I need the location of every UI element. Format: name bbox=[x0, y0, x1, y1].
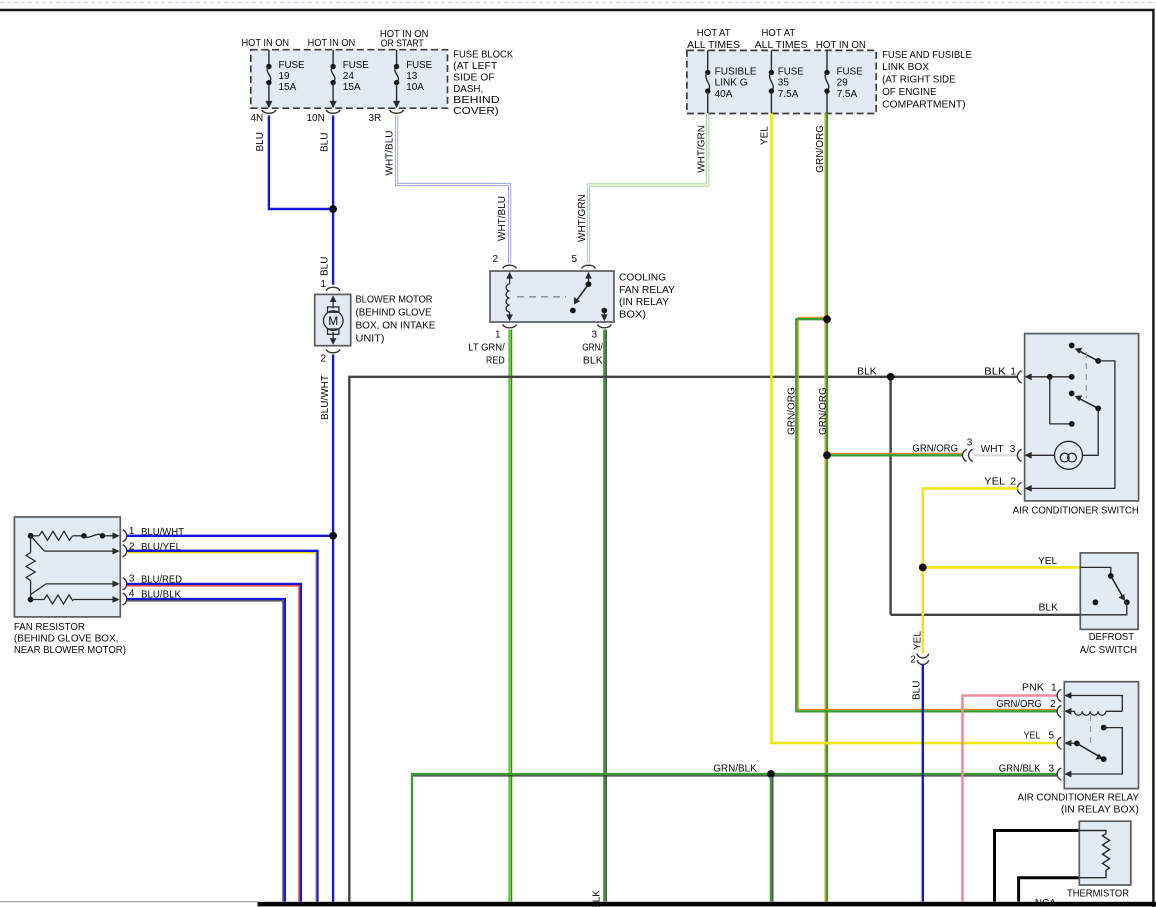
svg-text:7.5A: 7.5A bbox=[837, 89, 858, 100]
junction of BLU wires bbox=[329, 205, 337, 213]
svg-text:YEL: YEL bbox=[1038, 556, 1058, 567]
svg-text:FAN RELAY: FAN RELAY bbox=[619, 285, 675, 296]
inline connector 3 (GRN/ORG to WHT) bbox=[963, 438, 973, 462]
svg-text:7.5A: 7.5A bbox=[778, 89, 799, 100]
svg-text:15A: 15A bbox=[279, 82, 297, 93]
wire BLK from corner to air conditioner switch pin 1 bbox=[349, 367, 1018, 902]
air conditioner relay (in relay box) bbox=[1018, 682, 1140, 816]
fuse 29 7.5A (HOT IN ON) bbox=[816, 40, 866, 113]
svg-text:UNIT): UNIT) bbox=[356, 334, 385, 345]
svg-text:BLOWER MOTOR: BLOWER MOTOR bbox=[356, 295, 433, 306]
connector pin 5 of cooling fan relay bbox=[572, 254, 596, 269]
svg-text:29: 29 bbox=[837, 78, 849, 89]
svg-text:FUSE: FUSE bbox=[406, 60, 432, 71]
svg-text:5: 5 bbox=[1049, 731, 1055, 742]
svg-text:1: 1 bbox=[321, 279, 327, 290]
svg-text:10N: 10N bbox=[307, 113, 325, 124]
wire GRN/ORG branch to inline connector 3 bbox=[827, 443, 963, 455]
svg-text:WHT: WHT bbox=[981, 444, 1004, 455]
wire WHT/GRN from fusible link G to cooling fan relay pin 5 bbox=[577, 113, 708, 263]
fusible link G 40A (HOT AT ALL TIMES) bbox=[687, 28, 757, 113]
svg-text:THERMISTOR: THERMISTOR bbox=[1067, 889, 1129, 900]
connector pin 2 of cooling fan relay bbox=[493, 254, 517, 269]
svg-text:FUSE: FUSE bbox=[343, 60, 369, 71]
junction BLU/WHT bbox=[329, 532, 337, 540]
svg-text:WHT/GRN: WHT/GRN bbox=[577, 194, 588, 242]
svg-text:FUSE: FUSE bbox=[279, 60, 305, 71]
connector 3R bbox=[369, 110, 404, 124]
svg-text:DASH,: DASH, bbox=[453, 84, 483, 95]
svg-text:COOLING: COOLING bbox=[619, 273, 666, 284]
svg-text:(BEHIND GLOVE BOX,: (BEHIND GLOVE BOX, bbox=[14, 634, 119, 645]
defrost a/c switch bbox=[1039, 553, 1139, 656]
svg-text:A/C SWITCH: A/C SWITCH bbox=[1080, 645, 1137, 656]
svg-text:HOT AT: HOT AT bbox=[697, 28, 731, 39]
svg-text:WHT/BLU: WHT/BLU bbox=[385, 131, 396, 176]
svg-text:AIR CONDITIONER RELAY: AIR CONDITIONER RELAY bbox=[1018, 793, 1140, 804]
svg-text:35: 35 bbox=[778, 78, 790, 89]
wire GRN/ORG from fuse 29 down to bottom bbox=[815, 113, 829, 901]
svg-text:M: M bbox=[328, 314, 338, 328]
svg-text:FUSE: FUSE bbox=[837, 66, 863, 77]
svg-text:2: 2 bbox=[1010, 477, 1016, 488]
svg-text:40A: 40A bbox=[715, 89, 733, 100]
svg-text:3: 3 bbox=[1010, 444, 1016, 455]
svg-text:LINK BOX: LINK BOX bbox=[882, 62, 929, 73]
wire GRN/BLK branch junction to bottom bbox=[771, 777, 773, 902]
wire GRN/BLK from cooling fan relay pin 3 to bottom bbox=[592, 330, 607, 907]
svg-text:GRN/BLK: GRN/BLK bbox=[999, 764, 1041, 775]
connector pin 5 of air conditioner relay (YEL) bbox=[1024, 731, 1062, 749]
svg-text:WHT/BLU: WHT/BLU bbox=[497, 196, 508, 241]
svg-text:3: 3 bbox=[967, 438, 973, 449]
svg-text:ALL TIMES: ALL TIMES bbox=[687, 40, 740, 51]
svg-text:BLU: BLU bbox=[320, 257, 331, 276]
svg-text:10A: 10A bbox=[406, 82, 424, 93]
svg-text:13: 13 bbox=[406, 71, 418, 82]
connector pin 1 of fan resistor bbox=[123, 526, 184, 542]
connector pin 3 of air conditioner relay (GRN/BLK) bbox=[1049, 764, 1062, 781]
wire WHT from inline connector to air conditioner switch pin 3 bbox=[974, 454, 1018, 456]
svg-text:FUSE AND FUSIBLE: FUSE AND FUSIBLE bbox=[882, 50, 972, 61]
svg-text:FUSE: FUSE bbox=[778, 66, 804, 77]
wire GRN/BLK long run to air conditioner relay pin 3 bbox=[412, 764, 1058, 902]
svg-text:LINK G: LINK G bbox=[715, 78, 748, 89]
junction GRN/ORG upper bbox=[823, 315, 831, 323]
connector pin 2 of fan resistor bbox=[123, 541, 182, 557]
wire BLU/WHT fan resistor pin 1 to junction bbox=[127, 535, 330, 537]
svg-text:FUSIBLE: FUSIBLE bbox=[715, 66, 757, 77]
svg-text:PNK: PNK bbox=[1022, 683, 1044, 694]
wire WHT/BLU from fuse 13 to cooling fan relay pin 2 bbox=[385, 116, 510, 264]
wire BLU from inline connector 2 to bottom bbox=[911, 665, 923, 902]
svg-text:FAN RESISTOR: FAN RESISTOR bbox=[14, 622, 85, 633]
connector pin 3 of fan resistor bbox=[123, 574, 182, 590]
svg-text:3: 3 bbox=[592, 330, 598, 341]
blower motor (behind glove box, on intake unit) bbox=[315, 294, 436, 345]
svg-text:(IN RELAY BOX): (IN RELAY BOX) bbox=[1061, 804, 1139, 815]
svg-text:(IN RELAY: (IN RELAY bbox=[619, 297, 669, 308]
junction GRN/ORG lower bbox=[823, 451, 831, 459]
wire BLU from fuse 19 to junction bbox=[255, 116, 330, 210]
svg-text:BEHIND: BEHIND bbox=[453, 95, 500, 106]
svg-text:BLK: BLK bbox=[984, 367, 1006, 378]
fuse block box (at left side of dash) bbox=[251, 49, 514, 117]
connector pin 1 of blower motor bbox=[321, 279, 341, 291]
svg-text:FUSE BLOCK: FUSE BLOCK bbox=[453, 49, 513, 60]
svg-text:BLU/WHT: BLU/WHT bbox=[320, 375, 331, 420]
svg-text:4N: 4N bbox=[251, 113, 264, 124]
svg-text:2: 2 bbox=[493, 254, 499, 265]
svg-text:LT GRN/: LT GRN/ bbox=[468, 343, 505, 354]
svg-text:BLK: BLK bbox=[857, 367, 877, 378]
wire BLU/BLK fan resistor pin 4 to bottom bbox=[127, 599, 285, 902]
svg-text:COMPARTMENT): COMPARTMENT) bbox=[882, 99, 966, 110]
connector pin 3 of cooling fan relay bbox=[582, 325, 611, 367]
connector pin 2 of blower motor bbox=[320, 350, 340, 421]
svg-text:AIR CONDITIONER SWITCH: AIR CONDITIONER SWITCH bbox=[1013, 506, 1139, 517]
wire LT GRN/RED from cooling fan relay pin 1 to bottom bbox=[510, 330, 512, 902]
inline connector 2 (YEL to BLU) bbox=[910, 654, 929, 666]
svg-text:YEL: YEL bbox=[912, 631, 923, 650]
connector 10N bbox=[307, 110, 341, 124]
svg-text:GRN/ORG: GRN/ORG bbox=[912, 443, 958, 454]
svg-text:BLU: BLU bbox=[911, 681, 922, 700]
svg-text:BOX, ON INTAKE: BOX, ON INTAKE bbox=[356, 321, 436, 332]
wire BLK thermistor return (NCA) bbox=[1019, 878, 1080, 907]
wire YEL junction down to inline connector 2 bbox=[912, 570, 923, 654]
svg-text:3: 3 bbox=[1049, 764, 1055, 775]
fuse 13 10A (HOT IN ON OR START) bbox=[380, 29, 433, 108]
wire PNK from air conditioner relay pin 1 to bottom bbox=[963, 683, 1058, 902]
svg-text:(AT RIGHT SIDE: (AT RIGHT SIDE bbox=[882, 74, 956, 85]
wire YEL from fuse 35 to air conditioner relay pin 5 bbox=[760, 113, 1058, 743]
svg-text:15A: 15A bbox=[343, 82, 361, 93]
junction GRN/BLK bbox=[767, 770, 775, 778]
wire BLK thermistor feed left bbox=[995, 831, 1080, 902]
wire YEL from air conditioner switch pin 2 to junction bbox=[923, 488, 1018, 564]
svg-text:24: 24 bbox=[343, 71, 355, 82]
svg-text:OR START: OR START bbox=[381, 38, 424, 49]
svg-text:WHT/GRN: WHT/GRN bbox=[696, 125, 707, 173]
wire YEL junction to defrost a/c switch bbox=[923, 556, 1081, 567]
svg-text:GRN/ORG: GRN/ORG bbox=[786, 387, 797, 435]
svg-text:NEAR BLOWER MOTOR): NEAR BLOWER MOTOR) bbox=[14, 645, 126, 656]
svg-text:GRN/: GRN/ bbox=[582, 343, 603, 354]
connector pin 2 of air conditioner relay (GRN/ORG) bbox=[1050, 699, 1061, 717]
svg-text:COVER): COVER) bbox=[453, 106, 499, 117]
svg-text:BOX): BOX) bbox=[619, 310, 646, 321]
svg-text:1: 1 bbox=[495, 330, 501, 341]
svg-text:HOT IN ON: HOT IN ON bbox=[308, 38, 356, 49]
svg-text:2: 2 bbox=[910, 655, 916, 666]
svg-text:YEL: YEL bbox=[984, 477, 1005, 488]
connector pin 1 of air conditioner switch (BLK) bbox=[984, 367, 1021, 383]
svg-text:HOT IN ON: HOT IN ON bbox=[816, 40, 866, 51]
svg-text:3R: 3R bbox=[369, 113, 382, 124]
thermistor bbox=[1067, 821, 1131, 899]
wire BLU/RED fan resistor pin 3 to bottom bbox=[127, 584, 301, 902]
air conditioner switch bbox=[1013, 334, 1139, 517]
svg-text:2: 2 bbox=[1050, 699, 1056, 710]
svg-text:HOT AT: HOT AT bbox=[762, 28, 796, 39]
svg-text:SIDE OF: SIDE OF bbox=[453, 72, 495, 83]
wire BLU from fuse 24 to blower motor pin 1 bbox=[319, 116, 333, 285]
svg-text:GRN/BLK: GRN/BLK bbox=[592, 890, 603, 907]
fuse 24 15A (HOT IN ON) bbox=[308, 38, 370, 108]
wire BLU/YEL fan resistor pin 2 to bottom bbox=[127, 551, 318, 902]
svg-text:BLK: BLK bbox=[1039, 602, 1059, 613]
junction YEL bbox=[919, 564, 927, 572]
svg-text:1: 1 bbox=[1051, 683, 1057, 694]
wire BLU/WHT blower motor pin 2 down to junction bbox=[332, 355, 334, 533]
svg-text:RED: RED bbox=[486, 355, 505, 366]
svg-text:BLU: BLU bbox=[255, 132, 266, 151]
svg-text:BLU: BLU bbox=[319, 133, 330, 152]
wire BLK junction down to defrost a/c switch bbox=[889, 380, 891, 615]
svg-text:ALL TIMES: ALL TIMES bbox=[755, 40, 808, 51]
connector pin 2 of air conditioner switch (YEL) bbox=[984, 477, 1021, 495]
fuse 35 7.5A (HOT AT ALL TIMES) bbox=[755, 28, 808, 113]
svg-text:YEL: YEL bbox=[1024, 731, 1041, 742]
svg-text:19: 19 bbox=[279, 71, 291, 82]
svg-text:GRN/BLK: GRN/BLK bbox=[713, 764, 757, 775]
svg-text:5: 5 bbox=[572, 254, 578, 265]
svg-text:BLK: BLK bbox=[583, 355, 603, 366]
svg-text:OF ENGINE: OF ENGINE bbox=[882, 87, 937, 98]
wire GRN/ORG branch to air conditioner relay pin 2 bbox=[786, 317, 1057, 711]
fan resistor (behind glove box, near blower motor) bbox=[14, 517, 126, 656]
connector pin 1 of cooling fan relay bbox=[468, 325, 516, 367]
svg-text:GRN/ORG: GRN/ORG bbox=[815, 125, 826, 173]
svg-text:YEL: YEL bbox=[760, 126, 771, 145]
svg-text:GRN/ORG: GRN/ORG bbox=[996, 699, 1042, 710]
connector pin 3 of air conditioner switch (WHT) bbox=[981, 444, 1022, 461]
connector 4N bbox=[251, 110, 276, 124]
connector pin 4 of fan resistor bbox=[123, 589, 182, 605]
cooling fan relay (in relay box) bbox=[490, 271, 675, 322]
wire BLU/WHT junction to bottom bbox=[332, 538, 334, 902]
svg-text:1: 1 bbox=[1010, 367, 1016, 378]
junction BLK bbox=[887, 373, 895, 381]
fuse and fusible link box (at right side of engine compartment) bbox=[687, 50, 972, 114]
fuse 19 15A (HOT IN ON) bbox=[242, 38, 305, 108]
connector pin 1 of air conditioner relay (PNK) bbox=[1051, 683, 1061, 702]
svg-text:NCA: NCA bbox=[1035, 898, 1056, 907]
svg-text:(AT LEFT: (AT LEFT bbox=[453, 61, 497, 72]
svg-text:(BEHIND GLOVE: (BEHIND GLOVE bbox=[356, 308, 432, 319]
svg-text:2: 2 bbox=[321, 354, 327, 365]
svg-text:HOT IN ON: HOT IN ON bbox=[242, 38, 290, 49]
svg-text:DEFROST: DEFROST bbox=[1089, 632, 1134, 643]
svg-text:GRN/ORG: GRN/ORG bbox=[818, 387, 829, 435]
